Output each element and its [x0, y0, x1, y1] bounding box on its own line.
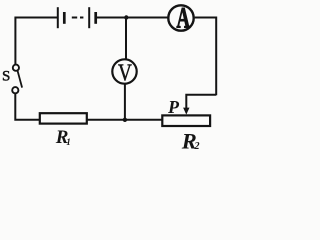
- battery cell 2 short plate: [94, 12, 97, 24]
- wire voltmeter top branch: [125, 18, 127, 60]
- battery cell 2 long plate: [88, 7, 90, 28]
- wire voltmeter bottom branch: [124, 84, 126, 120]
- wire slider feed horizontal and down: [186, 95, 216, 109]
- wire bottom between R1 and R2: [87, 119, 163, 121]
- voltmeter U2 circle: [112, 59, 136, 83]
- svg-text:V: V: [118, 60, 132, 87]
- svg-text:S: S: [2, 69, 10, 85]
- ammeter U1 circle: [168, 5, 193, 30]
- switch S top contact circle: [13, 65, 19, 71]
- switch S blade: [17, 70, 22, 87]
- battery cell 1 short plate: [63, 12, 66, 24]
- switch S bottom contact circle: [12, 87, 18, 93]
- junction node top (voltmeter tap): [124, 15, 128, 19]
- wire top-left from battery to corner, down left side: [15, 18, 57, 65]
- slider arrow P head: [183, 108, 189, 115]
- battery dashed link dash 2: [80, 17, 83, 19]
- wire bottom-left corner to R1: [15, 94, 40, 120]
- rheostat R2 box: [162, 115, 210, 126]
- resistor R1 box: [40, 113, 87, 123]
- wire battery to ammeter: [96, 17, 168, 19]
- svg-text:1: 1: [66, 137, 71, 147]
- svg-text:2: 2: [194, 141, 200, 152]
- battery dashed link dash 1: [72, 17, 77, 19]
- svg-text:P: P: [167, 97, 180, 117]
- junction node bottom (voltmeter tap): [123, 118, 127, 122]
- svg-text:A: A: [176, 2, 189, 34]
- battery cell 1 long plate: [57, 7, 59, 28]
- wire ammeter to right corner, down right side: [195, 18, 217, 96]
